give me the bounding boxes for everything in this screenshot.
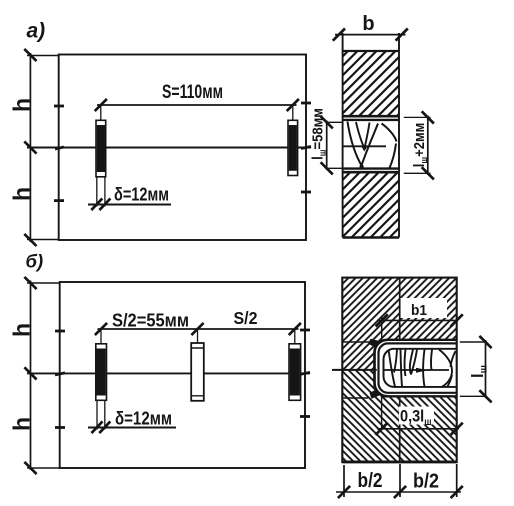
dimension line h (left, panel A): [29, 53, 31, 242]
plate upper edge line: [343, 119, 399, 121]
svg-text:S/2=55мм: S/2=55мм: [112, 311, 189, 331]
plate bar right (plan A): [288, 120, 298, 175]
arrow tick bottom B: [24, 462, 36, 474]
bent plate top outer edge: [388, 342, 457, 344]
grain curve B 8: [448, 375, 453, 387]
dimension delta line: [88, 204, 171, 206]
extension drop S left: [100, 105, 102, 120]
extension drop S/2 right: [294, 329, 296, 343]
grain curve B 7: [451, 351, 456, 367]
slot rounded end outer U: [375, 340, 388, 397]
edge tick right centerline B: [300, 372, 310, 374]
grain curve B 5: [423, 350, 425, 387]
arrow tick delta right: [99, 198, 110, 210]
extension b/2 middle: [399, 464, 401, 497]
arrow tick l right top: [479, 336, 491, 348]
svg-text:b: b: [362, 13, 374, 35]
edge tick left lower B: [55, 426, 65, 429]
dimension line S=110mm: [97, 104, 297, 106]
arrow tick b right: [396, 29, 408, 41]
bent plate bar middle (plan B, outline): [191, 343, 204, 401]
arrow tick b1 left: [376, 314, 388, 326]
panel A left extension line bottom: [27, 239, 59, 241]
section A column top edge: [343, 50, 399, 52]
svg-text:S/2: S/2: [234, 308, 258, 328]
arrow tick delta left: [91, 198, 102, 210]
svg-text:h: h: [9, 98, 35, 112]
svg-text:lш=58мм: lш=58мм: [310, 108, 328, 160]
dimension l+2mm extension bottom: [404, 172, 431, 174]
bent plate bottom outer edge: [388, 392, 457, 394]
arrow tick l+2 top: [422, 111, 434, 123]
arrow tick l58 bottom: [321, 162, 333, 174]
slot white cutout: [375, 340, 457, 397]
section B block outline: [342, 278, 456, 462]
edge tick right lower B: [300, 415, 310, 418]
section B block bottom edge emphasis: [342, 460, 456, 463]
svg-text:h: h: [9, 323, 35, 337]
dimension line l right: [485, 340, 487, 398]
edge tick left lower: [54, 199, 64, 202]
svg-text:а): а): [27, 20, 46, 43]
section B vertical divider upper: [399, 278, 401, 340]
slot centerline: [384, 369, 450, 371]
grain curve V right branch: [362, 124, 379, 166]
svg-text:б): б): [26, 251, 44, 272]
panel B centerline axis: [27, 372, 310, 374]
section B upper wood hatch: [342, 278, 456, 370]
svg-text:S=110мм: S=110мм: [162, 82, 223, 103]
extension b/2 left: [343, 465, 345, 497]
section A column left edge: [342, 33, 344, 238]
edge tick left upper: [54, 105, 64, 108]
arrow tick 0,3l right: [451, 423, 463, 435]
slot lower boundary line: [343, 171, 399, 174]
extension drop S right: [292, 105, 294, 120]
joint shoulder blob bottom: [370, 390, 380, 399]
edge tick right centerline: [301, 147, 311, 149]
grain curve B V right: [411, 350, 417, 375]
slot top boundary: [386, 339, 457, 341]
dimension delta B extension right: [104, 401, 106, 430]
arrow tick b left: [333, 29, 345, 41]
section B lower wood hatch: [342, 370, 456, 462]
arrow tick S/2 middle: [191, 323, 203, 335]
arrow tick top B: [24, 277, 36, 289]
dimension line l+2mm: [427, 116, 429, 176]
edge tick left centerline: [55, 147, 64, 149]
svg-text:h: h: [9, 417, 35, 431]
plate bar left (plan A): [96, 120, 106, 177]
section A column right edge: [398, 33, 400, 238]
svg-text:δ=12мм: δ=12мм: [114, 185, 169, 205]
white halo for label b1: [400, 298, 447, 318]
grain curve B 4: [404, 350, 407, 377]
panel A centerline axis: [27, 147, 311, 149]
panel B left extension line top: [27, 282, 60, 284]
grain curve B 3: [401, 350, 403, 387]
panel B left extension line bottom: [27, 467, 60, 469]
arrow tick l58 top: [321, 116, 333, 128]
grain arrowhead: [361, 146, 367, 151]
arrow tick l right bottom: [479, 390, 491, 402]
svg-text:δ=12мм: δ=12мм: [115, 408, 172, 429]
arrow tick b/2 right: [451, 486, 463, 498]
extension 0,3l left: [381, 396, 383, 430]
slot bottom boundary: [386, 395, 457, 397]
arrow tick bottom: [24, 234, 36, 246]
arrow tick 0,3l left: [376, 423, 388, 435]
grain curve B 2: [394, 350, 397, 373]
grain vertex blob: [360, 165, 364, 169]
slot centerline arrowhead: [416, 368, 428, 373]
dimension delta=12mm extension right: [104, 178, 106, 207]
extension b/2 right: [456, 464, 458, 497]
dimension delta=12mm extension left: [96, 178, 98, 207]
plate bar left (plan B): [96, 344, 107, 401]
arrow tick S/2 right: [289, 323, 301, 335]
arrow tick b/2 left: [338, 486, 350, 498]
extension drop S/2 left: [100, 329, 102, 343]
edge tick right lower: [301, 191, 311, 194]
grain curve B arc right: [439, 350, 452, 388]
dimension line b/2: [336, 491, 461, 493]
svg-text:h: h: [9, 187, 35, 201]
extension b1 left: [381, 316, 383, 340]
member boundary centerline left: [332, 369, 377, 371]
dimension line 0,3l: [377, 428, 459, 430]
dimension l right extension bottom: [460, 395, 487, 397]
section A upper wood block hatch: [343, 51, 399, 116]
dimension l=58mm extension bottom: [327, 167, 343, 169]
bent plate top inner edge: [394, 348, 457, 350]
arrow tick S/2 left: [95, 323, 107, 335]
arrow tick delta B left: [92, 421, 103, 433]
dimension line b1: [377, 319, 458, 321]
arrow tick l+2 bottom: [422, 167, 434, 179]
panel B member outline: [60, 282, 305, 468]
dimension l right extension top: [460, 341, 487, 343]
section A mid centerline: [344, 145, 387, 147]
svg-text:b/2: b/2: [413, 470, 439, 493]
plate lower edge line: [343, 167, 399, 169]
dimension delta B extension left: [96, 401, 98, 430]
grain inner V left: [356, 122, 365, 149]
arrow tick b/2 middle: [394, 486, 406, 498]
dimension delta B line: [88, 427, 176, 429]
dimension l+2mm extension top: [404, 116, 431, 118]
section B vertical divider lower: [399, 396, 401, 462]
label 0,3l: [400, 408, 432, 427]
arrow tick top: [24, 49, 36, 61]
edge tick left centerline B: [55, 373, 65, 375]
bent plate bottom inner edge: [394, 386, 457, 388]
grain right arc lower: [390, 144, 397, 169]
arrow tick middle: [24, 141, 36, 153]
arrow tick S left: [95, 99, 107, 111]
joint line left lower: [342, 397, 368, 399]
svg-text:lш+2мм: lш+2мм: [411, 123, 429, 168]
joint shoulder blob top: [368, 339, 380, 348]
arrow tick S right: [287, 99, 299, 111]
section A column bottom edge: [343, 236, 399, 239]
dimension line S/2: [98, 328, 299, 330]
white halo for label 0,3l: [399, 407, 434, 425]
panel A left extension line top: [27, 55, 59, 57]
grain right arc upper: [382, 124, 397, 142]
extension drop S/2 middle: [197, 329, 199, 343]
grain inner V right: [365, 123, 370, 149]
joint line left upper: [342, 341, 377, 343]
plate bar right (plan B): [289, 344, 301, 401]
panel A member outline: [59, 55, 306, 241]
slot upper boundary line: [343, 115, 399, 118]
edge tick right upper: [301, 102, 311, 105]
grain curve B 6: [431, 350, 432, 371]
svg-text:lш: lш: [469, 365, 490, 378]
bent plate outer U bend: [379, 343, 389, 392]
dimension l=58mm extension top: [327, 121, 343, 123]
edge tick right upper B: [300, 329, 310, 332]
grain curve B V left: [410, 350, 413, 375]
arrow tick middle B: [24, 367, 36, 379]
svg-text:b/2: b/2: [358, 469, 383, 492]
section A lower wood block hatch: [343, 172, 399, 238]
edge tick left upper B: [55, 330, 65, 333]
dimension line h (left, panel B): [30, 281, 32, 471]
bent plate inner U bend: [384, 349, 395, 387]
arrow tick b1 right: [451, 314, 463, 326]
svg-text:b1: b1: [411, 302, 427, 319]
dimension line b: [335, 34, 406, 36]
arrow tick delta B right: [99, 421, 110, 433]
grain curve left: [348, 122, 362, 166]
grain curve B 1: [389, 350, 396, 387]
dimension line l=58mm: [326, 121, 328, 171]
